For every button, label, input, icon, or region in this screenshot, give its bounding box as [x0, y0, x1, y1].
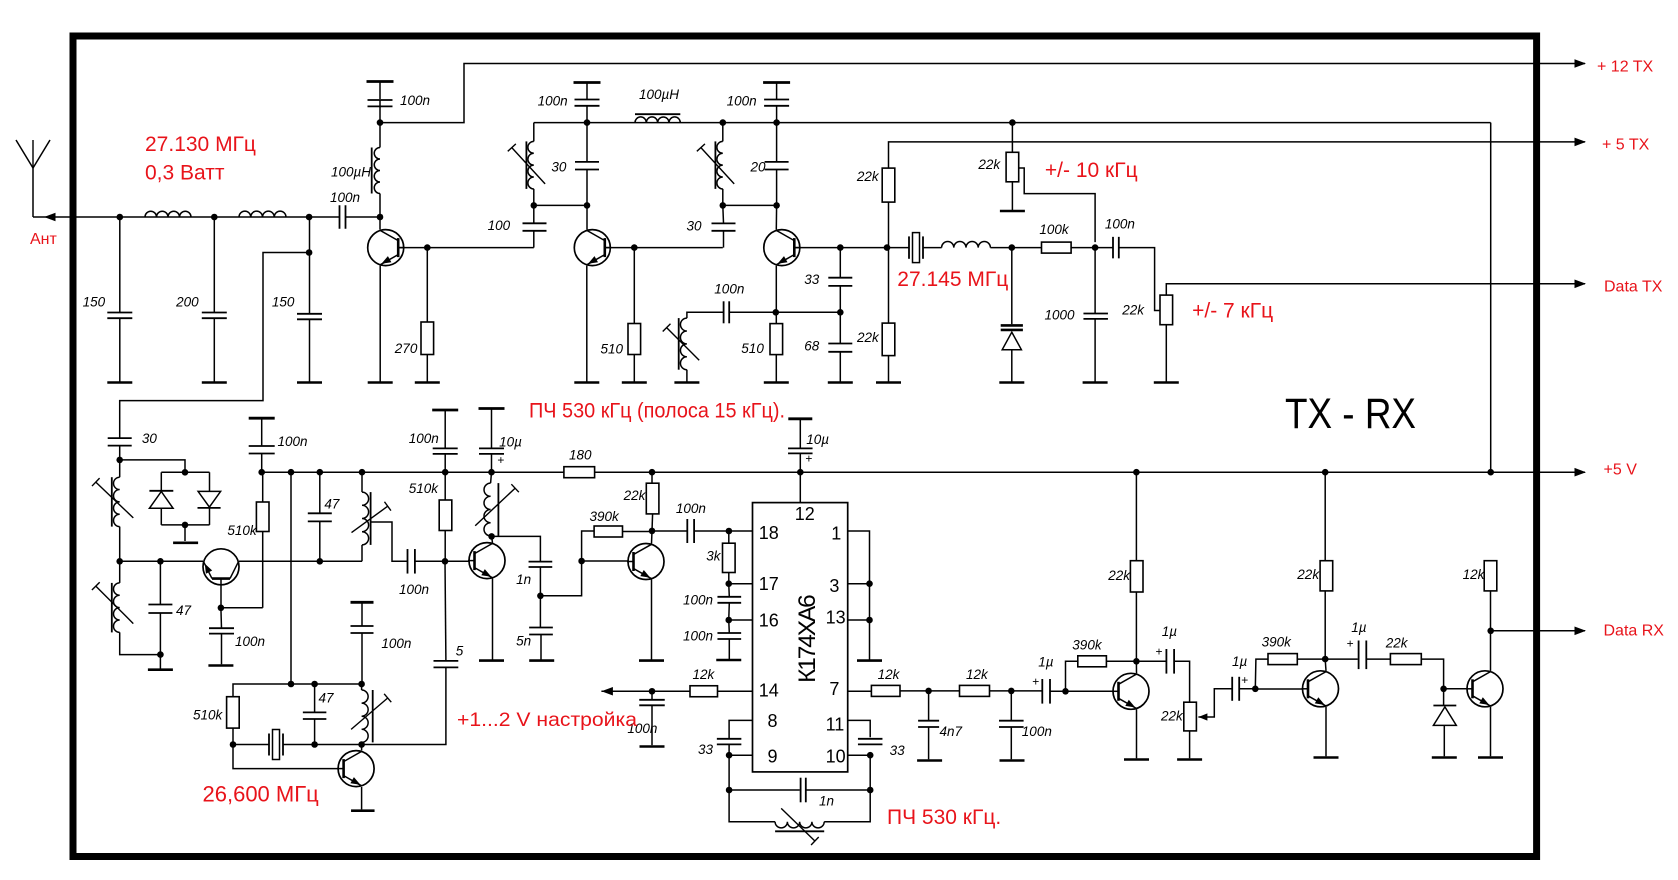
svg-text:200: 200 [175, 294, 199, 309]
svg-text:100k: 100k [1039, 222, 1070, 237]
svg-text:9: 9 [768, 747, 778, 767]
svg-text:+1...2 V настройка: +1...2 V настройка [457, 709, 637, 731]
svg-text:4n7: 4n7 [940, 724, 963, 739]
svg-text:3: 3 [829, 576, 839, 596]
svg-text:1µ: 1µ [1351, 620, 1367, 635]
svg-text:150: 150 [83, 294, 106, 309]
svg-text:1n: 1n [819, 793, 834, 808]
svg-text:510k: 510k [227, 523, 258, 538]
svg-text:+/- 10 кГц: +/- 10 кГц [1045, 159, 1138, 182]
svg-text:К174ХА6: К174ХА6 [794, 594, 821, 683]
svg-text:390k: 390k [590, 509, 621, 524]
svg-text:17: 17 [759, 574, 779, 594]
svg-text:7: 7 [829, 679, 839, 699]
svg-text:100n: 100n [235, 634, 265, 649]
svg-text:47: 47 [319, 690, 335, 705]
svg-text:11: 11 [826, 715, 845, 735]
svg-text:22k: 22k [1385, 635, 1409, 650]
svg-text:1µ: 1µ [1162, 624, 1178, 639]
svg-text:26,600 МГц: 26,600 МГц [203, 782, 320, 807]
svg-text:22k: 22k [977, 157, 1001, 172]
svg-text:Data TX: Data TX [1604, 279, 1663, 296]
svg-text:100n: 100n [399, 582, 429, 597]
svg-text:14: 14 [759, 680, 779, 700]
svg-text:100µH: 100µH [639, 87, 679, 102]
svg-text:+: + [1241, 673, 1248, 687]
svg-text:100: 100 [488, 218, 511, 233]
svg-text:20: 20 [750, 160, 767, 175]
svg-text:100n: 100n [278, 434, 308, 449]
svg-text:12k: 12k [1463, 567, 1486, 582]
svg-text:100n: 100n [400, 93, 430, 108]
svg-text:100n: 100n [1105, 216, 1135, 231]
svg-text:10µ: 10µ [499, 435, 522, 450]
svg-text:68: 68 [804, 338, 820, 353]
svg-text:+: + [1347, 637, 1354, 651]
svg-text:+ 5 TX: + 5 TX [1602, 137, 1650, 154]
svg-text:5n: 5n [516, 634, 531, 649]
svg-text:+: + [805, 452, 812, 466]
svg-text:22k: 22k [1160, 709, 1184, 724]
svg-text:+: + [1156, 644, 1163, 658]
svg-text:180: 180 [569, 448, 592, 463]
svg-text:10µ: 10µ [806, 432, 829, 447]
svg-text:27.130 МГц: 27.130 МГц [145, 133, 256, 156]
svg-text:30: 30 [687, 219, 703, 234]
svg-text:1000: 1000 [1045, 307, 1076, 322]
svg-text:22k: 22k [623, 488, 647, 503]
svg-text:510: 510 [741, 341, 764, 356]
svg-text:100n: 100n [683, 629, 713, 644]
svg-text:100n: 100n [714, 282, 744, 297]
svg-text:1µ: 1µ [1038, 655, 1054, 670]
svg-text:22k: 22k [856, 169, 880, 184]
svg-text:47: 47 [324, 497, 340, 512]
svg-text:5: 5 [456, 643, 464, 658]
svg-text:16: 16 [759, 610, 779, 630]
svg-text:13: 13 [826, 608, 846, 628]
svg-text:390k: 390k [1072, 638, 1103, 653]
svg-text:1n: 1n [516, 572, 531, 587]
svg-text:100µH: 100µH [331, 165, 371, 180]
svg-text:47: 47 [176, 603, 192, 618]
svg-text:100n: 100n [330, 190, 360, 205]
svg-text:Ант: Ант [30, 231, 58, 248]
svg-text:12k: 12k [878, 667, 901, 682]
svg-text:Data RX: Data RX [1604, 623, 1665, 640]
svg-text:12k: 12k [966, 667, 989, 682]
svg-text:12: 12 [795, 504, 815, 524]
svg-text:390k: 390k [1262, 635, 1293, 650]
svg-text:3k: 3k [706, 549, 722, 564]
svg-text:33: 33 [890, 743, 906, 758]
svg-text:30: 30 [551, 160, 567, 175]
svg-text:100n: 100n [538, 94, 568, 109]
svg-text:+ 12 TX: + 12 TX [1597, 59, 1654, 76]
svg-text:+/- 7 кГц: +/- 7 кГц [1192, 300, 1273, 323]
svg-text:22k: 22k [1107, 568, 1131, 583]
svg-text:ПЧ 530 кГц (полоса 15 кГц).: ПЧ 530 кГц (полоса 15 кГц). [529, 400, 785, 423]
svg-text:100n: 100n [1022, 724, 1052, 739]
svg-text:100n: 100n [676, 501, 706, 516]
svg-text:22k: 22k [1296, 567, 1320, 582]
svg-text:510k: 510k [193, 708, 224, 723]
svg-text:100n: 100n [409, 431, 439, 446]
svg-text:33: 33 [804, 272, 820, 287]
svg-text:150: 150 [272, 295, 295, 310]
svg-text:+: + [1032, 674, 1039, 688]
svg-text:100n: 100n [727, 94, 757, 109]
svg-text:510k: 510k [409, 481, 440, 496]
svg-text:510: 510 [601, 342, 624, 357]
svg-text:10: 10 [826, 747, 846, 767]
svg-text:22k: 22k [856, 330, 880, 345]
svg-text:18: 18 [759, 523, 779, 543]
svg-text:12k: 12k [693, 667, 716, 682]
svg-text:0,3 Ватт: 0,3 Ватт [145, 162, 225, 185]
svg-text:33: 33 [698, 742, 714, 757]
svg-text:270: 270 [394, 341, 418, 356]
svg-text:+5 V: +5 V [1604, 462, 1638, 479]
svg-text:8: 8 [768, 711, 778, 731]
svg-text:1: 1 [831, 523, 841, 543]
svg-text:100n: 100n [381, 636, 411, 651]
svg-text:1µ: 1µ [1232, 654, 1248, 669]
svg-text:27.145 МГц: 27.145 МГц [897, 268, 1008, 291]
svg-text:TX - RX: TX - RX [1285, 390, 1416, 438]
svg-text:100n: 100n [683, 593, 713, 608]
svg-text:22k: 22k [1121, 302, 1145, 317]
svg-text:ПЧ 530 кГц.: ПЧ 530 кГц. [887, 806, 1001, 829]
svg-text:+: + [497, 453, 504, 467]
svg-text:30: 30 [142, 431, 158, 446]
